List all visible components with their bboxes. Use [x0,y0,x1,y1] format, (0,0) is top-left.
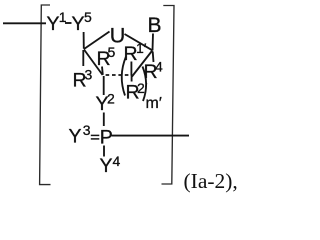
bond C to R2' [131,76,133,82]
wire P to right [112,135,190,137]
dashed ring bond C3 to CR1'R2' [106,74,129,76]
svg-text:3: 3 [83,122,91,138]
svg-text:P: P [100,127,113,149]
bond ring C to R3 [82,50,84,66]
bond Y5 to ring C [83,32,85,49]
bond R1' to C [130,62,132,76]
ring bond left C to C3 [84,50,103,76]
svg-text:4: 4 [155,59,163,75]
svg-text:1: 1 [59,9,67,25]
svg-text:5: 5 [108,44,116,60]
svg-text:Y: Y [47,13,60,35]
double bond Y3=P [91,134,100,136]
svg-text:m′: m′ [146,95,162,112]
ring bond right C to CR1'R2' [132,51,152,77]
svg-text:Y: Y [72,13,85,35]
wire left outer bond [3,22,46,24]
svg-text:(Ia-2),: (Ia-2), [184,169,238,193]
ring bond C-U left [84,32,110,50]
bracket left [40,5,51,185]
bond B to ring C [152,34,155,51]
bond P to Y4 [103,146,105,157]
bond C3 to Y2 [103,76,105,95]
svg-text:3: 3 [85,67,93,83]
svg-text:Y: Y [69,126,82,148]
bond Y2 to P [103,113,105,127]
bond Y1-Y5 [65,22,72,24]
svg-text:2′: 2′ [137,80,148,96]
bond ring C to R4 [152,52,155,63]
svg-text:1′: 1′ [136,40,147,56]
ring bond U-C right [125,34,153,50]
paren left of repeat unit [122,57,126,96]
paren right of repeat unit [143,67,147,102]
svg-text:4: 4 [113,153,121,169]
bracket right [162,6,175,185]
svg-text:Y: Y [100,155,113,177]
svg-text:2: 2 [107,91,115,107]
svg-text:B: B [148,14,162,37]
svg-text:5: 5 [84,9,92,25]
bond R5 to C3 [101,67,104,75]
